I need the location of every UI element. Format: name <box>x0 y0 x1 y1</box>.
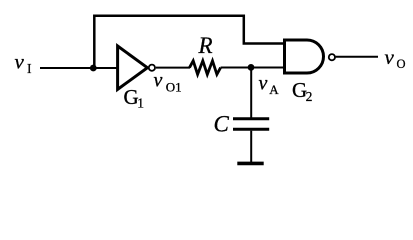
junction dot node A <box>248 64 255 71</box>
node label v_O1 <box>154 70 182 95</box>
inverter G1 <box>118 46 155 89</box>
wire G1 output to resistor <box>156 67 190 69</box>
junction dot at feedback tap <box>90 65 97 72</box>
node label v_O <box>385 45 406 71</box>
wire feedback loop to G2 top input <box>94 16 284 68</box>
svg-text:2: 2 <box>306 89 313 104</box>
label G2 <box>292 78 312 104</box>
resistor R <box>190 61 221 75</box>
nand gate G2 <box>285 40 336 73</box>
svg-text:O1: O1 <box>166 80 182 95</box>
svg-text:v: v <box>259 73 268 95</box>
svg-text:v: v <box>385 45 395 69</box>
svg-text:R: R <box>198 33 213 58</box>
svg-text:O: O <box>397 57 406 71</box>
svg-text:v: v <box>15 50 25 74</box>
capacitor C <box>233 119 269 129</box>
node label v_A <box>259 73 280 98</box>
wire capacitor to ground <box>250 131 252 162</box>
label G1 <box>124 85 145 111</box>
ground <box>237 162 263 166</box>
wire G2 output <box>336 56 378 58</box>
svg-text:A: A <box>269 82 279 97</box>
svg-text:v: v <box>154 70 163 92</box>
node label v_I <box>15 50 33 77</box>
svg-text:C: C <box>214 112 230 137</box>
wire resistor to G2 bottom input <box>221 67 284 69</box>
wire input to G1 <box>40 67 117 69</box>
svg-text:1: 1 <box>137 96 144 111</box>
svg-text:I: I <box>27 61 32 76</box>
wire node A down to capacitor <box>250 68 252 118</box>
